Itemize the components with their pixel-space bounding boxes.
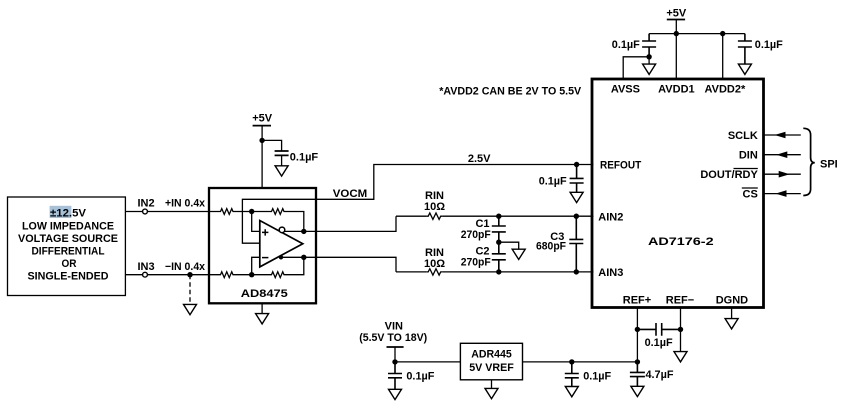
node C1 top [496, 214, 501, 219]
ground (AD8475 block) [261, 303, 263, 313]
wire IN2 [125, 211, 209, 213]
wire DOUT/RDY [764, 173, 801, 175]
svg-text:OR: OR [62, 258, 77, 270]
svg-text:4.7µF: 4.7µF [646, 369, 674, 381]
node bottom output [301, 255, 306, 260]
amplifier triangle [260, 221, 303, 267]
capacitor 0.1uF (REF) [637, 323, 680, 349]
brace SPI [803, 128, 815, 195]
node on IN3 [187, 272, 192, 277]
terminal IN3 [143, 272, 148, 277]
svg-text:(5.5V TO 18V): (5.5V TO 18V) [359, 332, 427, 344]
wire AIN2 line [396, 215, 594, 217]
svg-text:AVDD2*: AVDD2* [705, 84, 746, 96]
capacitor 0.1uF (REFOUT) [539, 165, 584, 193]
wire node to +input [252, 212, 260, 232]
minus input mark [262, 257, 268, 259]
ADC block U2 AD7176-2 [592, 79, 764, 308]
ground (VIN cap) [389, 389, 402, 399]
resistor RIN bottom [427, 269, 443, 275]
node top output [301, 229, 306, 234]
svg-text:±12.5V: ±12.5V [50, 208, 87, 220]
svg-text:−IN 0.4x: −IN 0.4x [165, 261, 206, 273]
plus input mark [262, 229, 268, 235]
svg-text:AVDD1: AVDD1 [658, 84, 694, 96]
svg-text:SCLK: SCLK [728, 130, 758, 142]
output bubble on triangle top edge [279, 227, 285, 233]
arrow CS [776, 190, 787, 197]
ground (C1/C2 mid) [512, 249, 525, 259]
ground (REF-) [674, 352, 687, 362]
wire top output [285, 216, 397, 231]
node VIN cap [392, 359, 397, 364]
svg-text:0.1µF: 0.1µF [583, 370, 611, 382]
node C3 bottom [574, 269, 579, 274]
resistor RIN top [427, 213, 443, 219]
wire AIN3 line [396, 271, 594, 273]
capacitor 4.7uF [630, 362, 674, 386]
svg-text:0.1µF: 0.1µF [755, 39, 783, 51]
svg-text:10Ω: 10Ω [424, 201, 445, 213]
supply +5V (AD8475) [252, 113, 273, 189]
reference U3 ADR445 [460, 343, 522, 380]
wire AVDD2 [722, 34, 724, 79]
svg-text:VIN: VIN [385, 320, 403, 332]
svg-text:CS: CS [743, 189, 758, 201]
node rail AVDD2 [720, 31, 725, 36]
wire bottom output [281, 257, 396, 272]
wire CS [764, 193, 801, 195]
svg-text:+5V: +5V [252, 113, 273, 125]
svg-text:REFOUT: REFOUT [600, 160, 641, 172]
node REFOUT cap [574, 162, 579, 167]
wire AVSS [623, 57, 649, 79]
capacitor C2 270pF [461, 242, 506, 272]
svg-text:C1: C1 [475, 218, 489, 230]
svg-text:RIN: RIN [425, 247, 444, 259]
supply VIN [359, 320, 427, 362]
ground (DGND) [731, 308, 733, 319]
svg-text:REF−: REF− [666, 295, 694, 307]
svg-text:IN2: IN2 [137, 198, 154, 210]
svg-text:5V VREF: 5V VREF [469, 362, 514, 374]
ground (AVDD2 cap) [738, 64, 751, 74]
svg-text:VOCM: VOCM [333, 188, 368, 200]
svg-text:SINGLE-ENDED: SINGLE-ENDED [28, 271, 109, 283]
arrow DIN [776, 151, 787, 158]
svg-text:IN3: IN3 [137, 261, 154, 273]
node REF- [678, 327, 683, 332]
wire REFOUT to VOCM [316, 165, 594, 200]
svg-text:+5V: +5V [666, 8, 687, 20]
wire dashed IN3 to ground [189, 275, 191, 305]
svg-text:VOLTAGE SOURCE: VOLTAGE SOURCE [18, 233, 118, 245]
wire IN3 [125, 274, 209, 276]
arrow SCLK [775, 132, 786, 139]
svg-text:LOW IMPEDANCE: LOW IMPEDANCE [22, 221, 114, 233]
node top input [249, 209, 254, 214]
node bottom input [249, 272, 254, 277]
wire SCLK [764, 134, 801, 136]
wire REF+ [636, 308, 638, 362]
svg-text:2.5V: 2.5V [468, 153, 491, 165]
svg-text:270pF: 270pF [461, 229, 491, 241]
svg-text:DIN: DIN [739, 150, 758, 162]
ground (dashed stub) [184, 304, 197, 314]
svg-text:0.1µF: 0.1µF [539, 176, 567, 188]
ground (ADR445) [491, 380, 493, 389]
svg-text:SPI: SPI [820, 158, 838, 170]
wire to cap [262, 140, 282, 151]
supply +5V (ADC) [666, 8, 687, 79]
svg-text:270pF: 270pF [461, 257, 491, 269]
ground (VREF out cap) [565, 387, 578, 397]
wire mid to ground [499, 242, 519, 249]
arrow DOUT/RDY [779, 171, 790, 178]
ground (REFOUT cap) [570, 192, 583, 202]
op-amp block U1 AD8475 [209, 188, 316, 303]
svg-text:DOUT/RDY: DOUT/RDY [700, 169, 758, 181]
wire node to -input [252, 257, 260, 274]
capacitor 0.1uF (AD8475) [275, 151, 319, 166]
svg-text:10Ω: 10Ω [424, 258, 445, 270]
source box V1 [8, 197, 126, 296]
wire vref rail [523, 361, 638, 363]
svg-text:DGND: DGND [716, 295, 748, 307]
svg-text:0.1µF: 0.1µF [612, 39, 640, 51]
svg-text:ADR445: ADR445 [471, 349, 512, 361]
node supply/cap [259, 138, 264, 143]
svg-text:AD8475: AD8475 [241, 288, 288, 300]
ground (4.7uF) [631, 386, 644, 396]
node bottom slant junction [279, 255, 283, 259]
svg-text:DIFFERENTIAL: DIFFERENTIAL [32, 246, 105, 258]
svg-text:0.1µF: 0.1µF [645, 337, 673, 349]
capacitor C3 680pF [536, 216, 583, 272]
capacitor C1 270pF [461, 216, 506, 242]
wire VIN to ADR445 [395, 361, 460, 363]
resistor input bottom (inside AD8475) [209, 272, 252, 278]
ground (AVSS cap) [648, 57, 650, 64]
node rail AVDD1 [674, 31, 679, 36]
overline RDY [734, 168, 758, 170]
node AVSS cap [646, 54, 651, 59]
capacitor 0.1uF (AVSS) [612, 34, 656, 57]
ground (AD8475 cap) [275, 166, 288, 176]
svg-text:AIN2: AIN2 [598, 211, 623, 223]
resistor feedback top [252, 209, 304, 232]
svg-text:0.1µF: 0.1µF [406, 370, 434, 382]
svg-text:AVSS: AVSS [611, 84, 640, 96]
svg-text:AIN3: AIN3 [598, 267, 623, 279]
svg-text:*AVDD2 CAN BE 2V TO 5.5V: *AVDD2 CAN BE 2V TO 5.5V [439, 85, 582, 97]
svg-text:680pF: 680pF [536, 241, 566, 253]
resistor input top (inside AD8475) [209, 209, 252, 215]
svg-text:AD7176-2: AD7176-2 [648, 236, 714, 248]
svg-text:+IN 0.4x: +IN 0.4x [165, 198, 206, 210]
wire VOCM internal [242, 199, 316, 243]
wire supply rail [649, 33, 745, 35]
wire REF- [680, 308, 682, 352]
capacitor 0.1uF (VIN) [388, 362, 435, 389]
capacitor 0.1uF (VREF out) [565, 362, 612, 387]
node C1/C2 mid [496, 240, 501, 245]
node REF+/rail [635, 359, 640, 364]
overline CS [742, 187, 758, 189]
node 0.1uF vref [569, 359, 574, 364]
node REF+ [635, 327, 640, 332]
svg-text:0.1µF: 0.1µF [290, 151, 319, 163]
wire DIN [764, 154, 801, 156]
capacitor 0.1uF (AVDD2) [738, 34, 783, 65]
terminal IN2 [143, 209, 148, 214]
node C2 bottom [496, 269, 501, 274]
svg-text:REF+: REF+ [623, 295, 651, 307]
resistor feedback bottom [252, 257, 304, 277]
node C3 top [574, 214, 579, 219]
